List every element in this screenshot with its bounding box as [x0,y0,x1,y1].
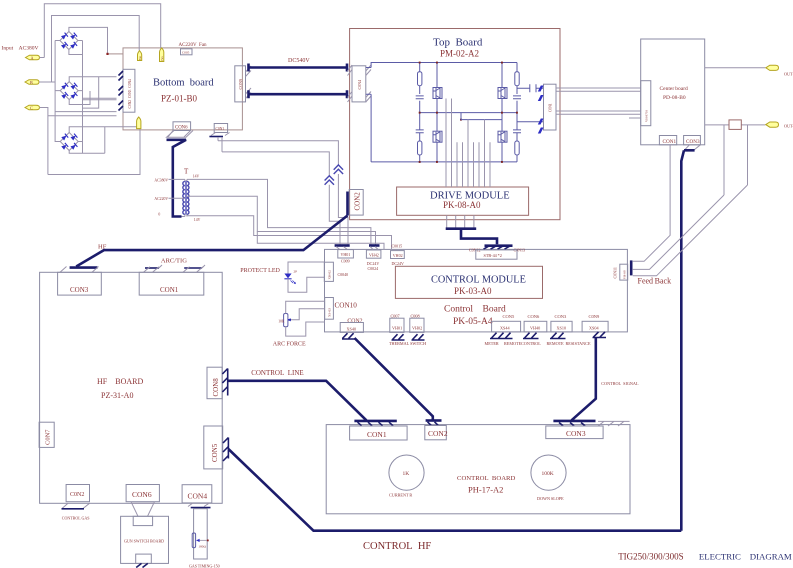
connector CON2 top board [349,190,363,216]
svg-text:C0015: C0015 [392,244,403,249]
transistor Q2 [433,131,442,142]
capacitor C5 output coupling [517,87,544,89]
svg-text:CON10: CON10 [335,302,358,310]
connector VH02 / DC24V [391,251,405,259]
thick wire CON6 to transformer [167,140,187,217]
wire BR1 output to board [108,53,124,55]
svg-text:Top Board: Top Board [433,36,483,48]
connector CON6 gun switch [126,485,159,502]
svg-text:CON3: CON3 [555,314,568,319]
svg-text:CON1: CON1 [663,139,677,145]
connector CON1 center board [659,136,676,145]
wires drive module to connector [447,215,474,227]
terminal OUT+ [766,65,779,70]
wire BR1 bottom loop [69,50,83,55]
connector CON1 PH board [354,420,396,423]
svg-text:PK-05-A4: PK-05-A4 [453,317,493,327]
fan terminal F3 [137,117,141,129]
thick wire CON2 to PH CON2 [355,338,433,420]
svg-text:C0024: C0024 [368,266,379,271]
svg-text:CON3: CON3 [70,286,89,294]
svg-text:OUT+: OUT+ [784,72,793,77]
LED D1 [284,274,291,279]
fan terminal F2 [160,48,164,62]
connector gun board top [133,516,152,525]
svg-text:2P: 2P [294,270,298,274]
thick DC540V bus wire upper [249,66,347,69]
wire CON6 to gun switch board [131,502,155,517]
svg-text:PZ-01-B0: PZ-01-B0 [161,94,198,104]
wires top board CON1 to center board [556,88,641,118]
svg-text:CON6: CON6 [132,490,152,499]
connector C0N1 bottom board [214,124,227,133]
thick wire CON3 down (welding control) [681,150,694,530]
svg-text:PM-02-A2: PM-02-A2 [440,49,479,59]
fan terminal F1 [138,51,142,61]
wire left bus bridges [55,41,60,142]
svg-text:REMOTE: REMOTE [547,341,565,346]
svg-text:PZ-31-A0: PZ-31-A0 [101,391,133,400]
wire phase B [39,16,139,83]
svg-text:B: B [30,80,33,85]
connector CON4 top board [352,66,366,102]
connector CON1 top board [544,84,557,130]
thick wire HF line CON2 to HF board CON3 [70,216,348,268]
connector CON3 PH board [598,421,630,426]
svg-text:VH02: VH02 [393,253,403,258]
connector CON9 on bottom board right edge [235,66,246,102]
bridge rectifier BR3 [60,133,78,151]
svg-text:PROTECT LED: PROTECT LED [240,268,280,274]
svg-text:C0N11: C0N11 [613,267,618,278]
thick DC540V bus wire lower [249,93,347,96]
wire CON6 skirt [167,131,194,138]
svg-text:14V: 14V [194,218,201,222]
svg-text:CONTROL: CONTROL [521,341,541,346]
svg-text:VH01: VH01 [392,326,402,331]
svg-text:A: A [31,55,34,60]
svg-text:C009: C009 [341,258,350,263]
svg-text:CONTROL MODULE: CONTROL MODULE [431,275,526,286]
gas valve GV1 [194,509,208,559]
svg-text:VH02: VH02 [412,326,422,331]
wire secondary s2 0 [187,196,376,245]
svg-text:CON8: CON8 [212,378,220,397]
wire OUT- with shunt [705,125,766,195]
connector XH-02 on control board left [324,262,333,281]
svg-text:CONTROL HF: CONTROL HF [363,541,431,552]
svg-text:PD-08-B0: PD-08-B0 [663,95,686,101]
svg-text:10K: 10K [278,319,285,323]
svg-text:RESISTANCE: RESISTANCE [566,341,591,346]
connector CON8 control line [207,367,222,399]
svg-text:CON1: CON1 [367,430,387,439]
svg-text:Input AC380V: Input AC380V [2,46,39,52]
svg-text:C0N4: C0N4 [357,80,362,90]
capacitor C3 [513,96,521,99]
wire OUT+ [705,67,766,69]
wire arc force loop [286,301,325,336]
svg-text:100K: 100K [542,471,554,477]
thick wire drive module link [446,229,497,245]
wire secondary s3 14V [187,215,392,250]
svg-text:C0040: C0040 [338,272,349,277]
svg-text:C0N1: C0N1 [216,127,225,131]
svg-text:XS-03: XS-03 [328,308,332,317]
gun switch board [121,516,169,563]
svg-text:C0N9: C0N9 [589,314,601,319]
svg-text:VH-9710: VH-9710 [645,110,649,122]
wire CON4 to H-bridge rail [366,68,371,95]
svg-text:C005: C005 [182,50,190,54]
wire secondary s4 [257,232,384,250]
svg-text:CONTROL GAS: CONTROL GAS [62,515,90,520]
wire output to CON1 [517,113,544,122]
wire BR2 top loop [69,77,116,108]
svg-text:HF: HF [98,244,107,251]
wire CON3 hatch [685,145,701,150]
wire top bus [371,63,517,68]
svg-text:VH40: VH40 [530,326,540,331]
svg-text:CON3: CON3 [686,139,700,145]
bridge rectifier BR2 [60,82,78,100]
capacitor C2 [416,130,424,133]
wire spark gaps down to VH01 [329,174,348,245]
resistor R4 [515,141,519,155]
transistor Q3 [498,88,507,99]
wire CON3 hf hatch [60,267,99,273]
svg-text:Bottom board: Bottom board [153,78,214,89]
connector VH-9710 center board [641,81,651,126]
svg-text:VH01: VH01 [341,252,351,257]
svg-text:C0N1: C0N1 [549,103,553,112]
svg-text:CON2: CON2 [354,192,362,211]
svg-text:TIG250/300/300S: TIG250/300/300S [618,552,684,562]
svg-text:C008: C008 [411,313,420,318]
transistor Q1 [433,88,442,99]
wire CON1 down to feedback [633,145,670,261]
control board PK-05-A4 outline [325,249,628,332]
svg-text:PH-17-A2: PH-17-A2 [468,484,503,494]
svg-text:14V: 14V [193,174,200,178]
svg-text:STB-44 *2: STB-44 *2 [484,253,502,258]
drive module PK-08-A0 [397,187,529,215]
svg-text:C0N2: C0N2 [70,492,84,498]
svg-text:GAS TIMING-150: GAS TIMING-150 [189,564,220,568]
svg-text:CONTROL SIGNAL: CONTROL SIGNAL [601,381,639,386]
connector CON5 HF board [204,426,223,469]
terminal C [25,105,40,110]
top board PM-02-A2 [350,29,560,220]
svg-text:VH-08: VH-08 [622,270,626,279]
svg-text:ARC/TIG: ARC/TIG [161,258,187,265]
wire C0N1 to spark gaps [218,137,338,176]
svg-text:CON5: CON5 [503,314,516,319]
wire feedback 3 [633,185,748,276]
svg-text:AC220V: AC220V [154,197,168,201]
svg-text:T: T [184,168,189,176]
svg-text:AC380V: AC380V [154,178,168,182]
potentiometer 100K down slope [531,455,566,490]
connector CON3 center board [684,136,701,145]
connector CON1 HF board [139,272,204,295]
svg-text:CON4: CON4 [188,492,208,501]
bridge rectifier BR1 [60,32,78,50]
svg-text:DC540V: DC540V [288,58,310,64]
svg-text:XS40: XS40 [347,326,357,331]
svg-text:PK-03-A0: PK-03-A0 [454,286,492,296]
potentiometer RP1 arc force [284,314,288,327]
control module PK-03-A0 [395,266,542,298]
thick wire CON5 to bottom bus [228,449,681,531]
connector CON2 PH board [426,419,442,422]
svg-text:CON5: CON5 [211,443,219,462]
connector CON3 HF board [58,272,102,295]
svg-text:CON2: CON2 [428,429,448,438]
svg-text:HF BOARD: HF BOARD [97,377,143,386]
connector CON2 control gas [66,485,89,502]
wire right bus bridges [78,41,83,154]
wire left rail [370,94,372,162]
wire phase C [40,108,48,175]
wire BR3 bottom loop [69,151,105,154]
svg-text:VH42: VH42 [369,253,379,258]
svg-text:CON1: CON1 [160,286,179,294]
svg-text:Feed Back: Feed Back [638,277,672,286]
connector STB-44*2 box [476,250,517,259]
connector arc bar 1 [145,267,159,269]
potentiometer 1K current [389,455,424,490]
center board PD-08-B0 [641,39,705,145]
spark gap arrestor E2 [334,165,343,174]
wire BR1 top loop [69,27,108,54]
thick wire control signal [553,338,595,421]
bottom board PZ-01-B0 [123,48,242,130]
svg-text:C0N2 C0N3 C0N4: C0N2 C0N3 C0N4 [128,79,132,109]
resistor R2 [418,141,422,155]
svg-text:ARC FORCE: ARC FORCE [273,341,306,347]
svg-text:REMOTE: REMOTE [504,341,522,346]
svg-text:CON9: CON9 [238,79,243,89]
shunt resistor box [729,120,741,129]
transistor Q4 [498,131,507,142]
connector VH42 / DC24V C0024 [369,244,380,247]
connector CON7 HF board [39,422,54,447]
wire bottom bus [371,161,517,163]
svg-text:XH-02: XH-02 [328,270,332,280]
resistor R1 [418,72,422,86]
connector gun board bottom [136,554,152,563]
terminal OUT- [766,122,779,127]
svg-text:PK-08-A0: PK-08-A0 [443,200,481,210]
svg-text:CURRENT R: CURRENT R [389,493,412,498]
svg-text:GUN SWITCH BOARD: GUN SWITCH BOARD [124,539,164,544]
svg-text:DOWN SLOPE: DOWN SLOPE [537,496,564,501]
svg-text:Center board: Center board [660,86,689,92]
svg-text:CONTROL BOARD: CONTROL BOARD [457,475,516,482]
wire BR3 top loop [48,127,140,175]
svg-text:CON6: CON6 [528,314,541,319]
connector C005 [181,49,193,55]
capacitor C1 [416,96,424,99]
wire output mid tap [461,113,502,120]
svg-text:C: C [30,105,33,110]
svg-text:DC24V: DC24V [392,261,405,266]
resistor R3 [515,72,519,86]
svg-text:1K: 1K [403,471,410,477]
svg-text:0: 0 [158,213,160,217]
wire phase A [40,4,161,58]
svg-text:180Ω: 180Ω [198,545,206,549]
connector XS-03 CON10 [325,298,334,320]
svg-text:C007: C007 [391,313,400,318]
svg-text:Control Board: Control Board [444,304,506,314]
gate drive wires to drive module [446,99,490,188]
svg-text:CON3: CON3 [566,429,586,438]
control board PH-17-A2 [326,425,630,514]
connector CON12/CON13 bar and hatch [485,244,513,247]
HF board PZ-31-A0 [40,272,223,503]
connector VH01 / C009 [335,244,350,247]
spark gap arrestor E1 [325,176,334,185]
wire secondary s1 14V [187,179,371,245]
svg-text:XS44: XS44 [500,326,510,331]
svg-text:CONTROL LINE: CONTROL LINE [251,369,304,377]
wire mid bus [420,112,517,114]
terminal B [25,80,39,85]
terminal A [26,55,40,60]
wire BR2 bottom wires to connector [48,91,117,116]
svg-text:ELECTRIC DIAGRAM: ELECTRIC DIAGRAM [699,551,792,561]
junction dots [419,62,518,163]
wire feedback 2 [633,195,724,269]
svg-text:AC220V Fan: AC220V Fan [179,43,208,48]
svg-text:C0N7: C0N7 [45,429,52,445]
svg-text:CON2: CON2 [347,318,362,324]
wire LED loop to VH-02 [288,262,324,292]
svg-text:OUT-: OUT- [784,124,793,129]
svg-text:CON6: CON6 [175,126,188,131]
svg-text:METER: METER [485,341,499,346]
svg-text:XS10: XS10 [557,326,567,331]
connector C0N2 C0N3 C0N4 on bottom board [123,69,135,112]
thick wire control line to PH CON1 [228,381,367,421]
connector CON6 bottom board [173,122,191,131]
svg-text:THERMAL SWITCH: THERMAL SWITCH [389,341,426,346]
wire primary taps [169,179,185,216]
connector CON4 gas valve [182,485,212,503]
connector arc bar 2 [184,267,202,269]
capacitor C4 [513,130,521,133]
svg-text:XS04: XS04 [589,326,599,331]
